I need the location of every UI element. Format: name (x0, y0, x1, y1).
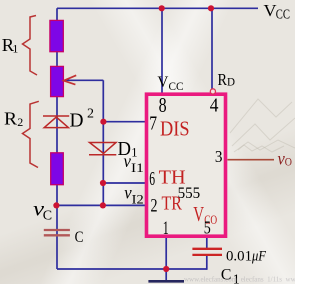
faint paper watermark (230, 99, 295, 152)
wire pin7 DIS (103, 121, 146, 123)
svg-text:O: O (285, 157, 292, 169)
wire pin8 (161, 8, 163, 94)
svg-text:D: D (227, 76, 235, 88)
potentiometer wiper arrow (64, 75, 77, 84)
svg-text:C: C (75, 229, 84, 246)
svg-text:0.01μF: 0.01μF (226, 249, 267, 265)
brace R1 (23, 16, 38, 76)
svg-text:8: 8 (159, 93, 167, 117)
wire bottom rail (57, 268, 207, 270)
brace R2 (23, 101, 39, 167)
svg-text:3: 3 (215, 147, 223, 166)
svg-text:C: C (43, 208, 52, 223)
svg-text:1: 1 (12, 41, 18, 55)
svg-text:TR: TR (162, 194, 183, 215)
svg-text:v: v (124, 182, 131, 202)
svg-text:V: V (193, 202, 204, 226)
svg-text:v: v (278, 148, 285, 168)
svg-text:www.elecfans.com elecfans 1/: www.elecfans.com elecfans 1/11s www (184, 276, 295, 284)
wire top VCC rail (57, 7, 258, 9)
wire pin5 upper (206, 237, 208, 249)
junction dot top rail left (159, 5, 165, 11)
wire pin1 (165, 237, 167, 270)
capacitor C1 plates (192, 248, 222, 250)
reset pin RD circle (210, 89, 215, 94)
op 555 IC box U1 (147, 94, 226, 236)
svg-text:I2: I2 (132, 192, 144, 206)
svg-text:7: 7 (149, 114, 157, 135)
svg-text:R: R (218, 70, 228, 89)
diode D2 triangle (44, 117, 68, 128)
wire pin3 output (red) (228, 159, 275, 161)
diode D1 cathode bar (89, 154, 116, 156)
wire pin4 (211, 8, 213, 89)
svg-text:5: 5 (204, 218, 211, 238)
wire middle column vertical (102, 80, 104, 205)
svg-text:R: R (4, 109, 17, 129)
junction dot pin7 (100, 119, 106, 125)
svg-text:2: 2 (17, 115, 23, 129)
svg-text:I1: I1 (131, 161, 144, 175)
svg-text:CC: CC (276, 6, 290, 21)
svg-text:DIS: DIS (160, 117, 190, 141)
junction dot pin6 (100, 180, 106, 186)
svg-text:1: 1 (131, 146, 137, 160)
capacitor C plates (44, 229, 70, 231)
resistor R1 body (50, 20, 63, 51)
resistor body (lower R2 section) (51, 153, 64, 185)
svg-text:4: 4 (210, 95, 219, 117)
wire wiper horizontal (65, 79, 103, 81)
wire left column vertical (56, 8, 58, 269)
diode D2 cathode bar (43, 115, 69, 117)
junction dot bottom rail (163, 266, 169, 272)
svg-text:6: 6 (149, 169, 155, 190)
svg-text:CC: CC (169, 79, 184, 93)
ground stub (165, 269, 167, 281)
diode D1 triangle (90, 143, 117, 154)
svg-text:D: D (70, 109, 84, 131)
junction dot top rail right (208, 5, 214, 11)
junction dot vC (53, 202, 59, 208)
wire pin2 TR / vC (57, 204, 147, 206)
svg-text:1: 1 (163, 219, 169, 239)
svg-text:2: 2 (151, 197, 158, 217)
wire pin6 TH (103, 182, 146, 184)
svg-text:V: V (157, 74, 168, 91)
svg-text:2: 2 (87, 107, 94, 122)
wire pin5 lower (206, 256, 208, 270)
ground bar (148, 280, 184, 283)
junction dot pin2 (100, 202, 106, 208)
svg-text:v: v (124, 151, 131, 171)
potentiometer body (upper R2 section) (51, 66, 64, 96)
